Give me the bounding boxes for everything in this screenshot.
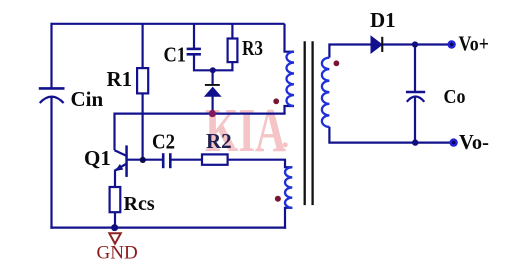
svg-text:Cin: Cin bbox=[71, 87, 104, 111]
svg-text:R1: R1 bbox=[107, 67, 133, 91]
transformer core bbox=[305, 41, 313, 205]
wire left input branch (Cin top lead) bbox=[50, 23, 52, 89]
svg-text:R3: R3 bbox=[242, 36, 263, 60]
capacitor Cin bbox=[39, 88, 65, 103]
terminal Vo+ bbox=[449, 42, 455, 48]
capacitor C1 bbox=[187, 49, 201, 54]
wire C1 bottom lead to clamp node bbox=[194, 54, 213, 70]
svg-text:Vo-: Vo- bbox=[459, 130, 489, 154]
junction emitter ground node bbox=[111, 224, 118, 231]
wire R3 top lead bbox=[231, 24, 233, 39]
phase dot feedback bbox=[275, 196, 281, 202]
svg-text:Vo+: Vo+ bbox=[459, 31, 490, 55]
capacitor C2 bbox=[163, 153, 170, 168]
wire Q1 base to C2 bbox=[127, 159, 164, 161]
wire C1 top lead bbox=[193, 24, 195, 49]
wire bottom rail (ground return) bbox=[50, 227, 286, 229]
wire Rcs bottom lead bbox=[114, 212, 116, 227]
wire clamp diode anode lead bbox=[212, 96, 214, 114]
wire Co top lead bbox=[414, 45, 416, 93]
svg-text:GND: GND bbox=[97, 243, 138, 264]
wire primary bottom lead bbox=[285, 106, 295, 114]
wire collector rail bbox=[115, 112, 286, 114]
junction D1 output node bbox=[412, 41, 418, 47]
wire secondary top lead to D1 anode bbox=[329, 45, 371, 58]
diode D1 bbox=[371, 36, 383, 53]
capacitor Co bbox=[406, 92, 425, 102]
svg-text:C2: C2 bbox=[152, 130, 175, 154]
svg-text:D1: D1 bbox=[370, 8, 396, 32]
ground symbol bbox=[109, 233, 121, 244]
transformer primary winding Np bbox=[287, 52, 295, 106]
wire primary top lead bbox=[285, 24, 295, 52]
transistor Q1 bbox=[115, 145, 128, 177]
wire R1 bottom lead to base node bbox=[142, 93, 144, 159]
resistor R3 bbox=[228, 39, 238, 63]
svg-text:Rcs: Rcs bbox=[124, 193, 155, 215]
svg-text:R2: R2 bbox=[206, 129, 232, 153]
junction clamp node bbox=[210, 67, 216, 73]
transformer feedback winding Nb bbox=[285, 167, 292, 208]
transformer secondary winding Ns bbox=[322, 58, 330, 127]
resistor R2 bbox=[202, 154, 228, 164]
wire clamp diode cathode lead bbox=[212, 70, 214, 84]
svg-text:Q1: Q1 bbox=[84, 146, 111, 170]
phase dot primary bbox=[273, 98, 279, 104]
wire Q1 emitter lead bbox=[114, 170, 116, 188]
wire Cin bottom lead bbox=[50, 96, 52, 229]
junction diode anode / collector rail bbox=[209, 110, 216, 117]
wire R2 to feedback winding bbox=[228, 160, 293, 168]
phase dot secondary bbox=[334, 60, 340, 66]
resistor R1 bbox=[137, 68, 148, 93]
wire C2 to R2 bbox=[170, 159, 202, 161]
junction base node bbox=[140, 157, 146, 163]
wire D1 cathode to Vo+ terminal bbox=[383, 43, 450, 45]
watermark KIA bbox=[205, 97, 288, 165]
wire feedback winding bottom lead bbox=[285, 208, 292, 229]
wire R3 bottom lead to clamp node bbox=[213, 62, 232, 70]
wire secondary bottom lead / Vo- rail bbox=[329, 127, 451, 143]
svg-text:C1: C1 bbox=[164, 43, 187, 67]
zener clamp diode (cathode up) bbox=[205, 84, 221, 96]
terminal Vo- bbox=[451, 140, 457, 146]
resistor Rcs bbox=[110, 187, 121, 212]
wire top rail Vin+ bbox=[52, 23, 285, 25]
wire R1 top lead bbox=[142, 24, 144, 68]
wire Q1 collector lead bbox=[113, 113, 115, 151]
wire Co bottom lead bbox=[414, 97, 416, 143]
junction Vo- node bbox=[412, 139, 418, 145]
svg-text:Co: Co bbox=[444, 86, 466, 108]
